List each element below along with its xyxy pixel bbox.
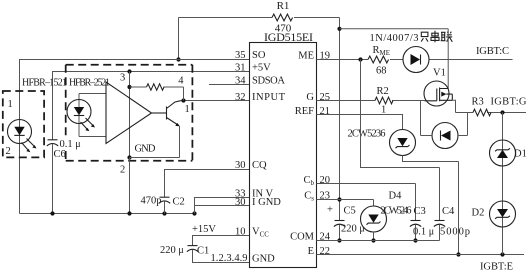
svg-text:1N/4007/3: 1N/4007/3 <box>370 33 419 44</box>
svg-text:+5V: +5V <box>252 62 271 73</box>
wire: CQ line pin30 <box>165 170 250 198</box>
svg-text:R3: R3 <box>472 97 484 108</box>
wire: REF line pin21 to zener <box>317 115 403 130</box>
svg-text:D1: D1 <box>514 149 527 160</box>
svg-text:10: 10 <box>235 226 246 237</box>
svg-text:E: E <box>308 246 314 257</box>
wire: I GND line pin30 <box>195 205 250 207</box>
svg-text:ME: ME <box>298 50 314 61</box>
wire: top R1 feed from SO junction <box>179 18 340 60</box>
wire: ME line to IGBT:C <box>317 59 513 61</box>
svg-text:+15V: +15V <box>192 224 216 235</box>
op-amp triangle (receiver amp) <box>106 82 152 144</box>
pin 34 SDSOA <box>235 75 285 86</box>
pin 21 REF <box>295 106 330 117</box>
internal resistor to pin 4 <box>130 76 185 101</box>
node: +5V / pin3 junction <box>127 69 131 73</box>
svg-text:0.1 μ: 0.1 μ <box>413 227 434 238</box>
svg-text:GND: GND <box>252 253 275 264</box>
wire: COM line pin24 <box>317 240 440 242</box>
svg-text:D4: D4 <box>389 191 403 202</box>
wire: C6 to ground bus <box>52 144 54 213</box>
wire: INPUT line pin32 <box>184 100 250 102</box>
svg-text:IGBT:G: IGBT:G <box>491 97 527 108</box>
svg-text:C6: C6 <box>54 149 66 160</box>
svg-text:R2: R2 <box>377 86 389 97</box>
component box HFBR-2521 (dashed) <box>66 64 193 66</box>
resistor R3 <box>456 97 527 116</box>
svg-text:68: 68 <box>376 66 387 77</box>
wire: IN V line pin33 <box>195 198 250 214</box>
zener D4 2CW5246 <box>361 191 412 233</box>
node: Cs junction on vertical <box>337 197 341 201</box>
svg-text:2: 2 <box>6 146 11 157</box>
component box HFBR-1521 (dashed) <box>3 91 44 157</box>
svg-text:1: 1 <box>381 105 386 116</box>
wire: pin3 vcc vertical <box>129 72 131 158</box>
wire: Cs line pin23 to D4 <box>317 200 374 207</box>
wire: C5 to COM <box>339 225 341 241</box>
pin 23 Cs <box>304 190 330 202</box>
pin 19 ME <box>298 50 330 61</box>
LED D (transmitter) <box>8 120 37 153</box>
svg-text:20: 20 <box>320 175 331 186</box>
svg-text:220 μ: 220 μ <box>341 224 365 235</box>
wire: V1 source to R3 <box>452 100 455 112</box>
svg-text:REF: REF <box>295 106 314 117</box>
svg-text:2: 2 <box>120 165 125 176</box>
svg-text:3: 3 <box>120 73 125 84</box>
svg-text:C2: C2 <box>173 197 185 208</box>
pin 22 E <box>308 246 330 257</box>
capacitor C4 <box>434 206 470 238</box>
svg-text:IGD515EI: IGD515EI <box>264 30 313 44</box>
diode 1N4007 (series sense) <box>403 47 429 73</box>
ground rail inside box <box>130 157 180 159</box>
svg-text:31: 31 <box>235 62 246 73</box>
node: SO junction dot <box>176 57 180 61</box>
pin 25 G <box>306 92 330 103</box>
wire: C1 to GND line <box>193 250 250 263</box>
svg-text:4: 4 <box>178 76 184 87</box>
photodiode (receiver) <box>67 94 106 137</box>
pin 33 IN V <box>235 188 274 199</box>
svg-text:INPUT: INPUT <box>252 92 286 103</box>
diode (antiparallel with V1) <box>421 101 468 149</box>
svg-text:D2: D2 <box>472 208 485 219</box>
node: branch to V1 drain <box>337 27 341 31</box>
svg-text:SO: SO <box>252 50 266 61</box>
svg-text:35: 35 <box>235 50 246 61</box>
svg-text:220 μ: 220 μ <box>160 245 184 256</box>
svg-text:21: 21 <box>320 106 331 117</box>
wire: E line pin22 to IGBT:E <box>317 254 525 256</box>
op-amp U1 IGD515EI box <box>250 43 317 268</box>
pin 24 COM <box>290 231 331 242</box>
svg-text:30: 30 <box>235 197 246 208</box>
svg-text:22: 22 <box>320 246 331 257</box>
svg-text:I GND: I GND <box>252 197 281 208</box>
svg-text:470p: 470p <box>141 196 162 207</box>
svg-text:SDSOA: SDSOA <box>252 75 285 86</box>
pin 35 SO <box>235 50 266 61</box>
svg-text:COM: COM <box>290 231 315 242</box>
svg-text:IGBT:E: IGBT:E <box>480 262 513 273</box>
svg-text:32: 32 <box>235 92 246 103</box>
capacitor C1 <box>160 245 209 257</box>
svg-text:V1: V1 <box>433 68 446 79</box>
capacitor C2 <box>141 196 185 208</box>
wire: ME branch to C4 <box>361 60 440 221</box>
zener D2 <box>472 201 516 227</box>
node: ME junction <box>358 57 362 61</box>
ground bus <box>20 213 195 215</box>
svg-text:5000p: 5000p <box>440 227 470 238</box>
wire: zener to E line <box>403 156 459 255</box>
pin 32 INPUT <box>235 92 286 103</box>
wire: G line pin25 <box>317 100 425 102</box>
wire: +5V line pin31 <box>53 72 250 140</box>
wire: Cb line pin20 to C3 <box>317 184 416 221</box>
svg-text:C3: C3 <box>414 206 426 217</box>
label 1N/4007 3 in series <box>370 31 453 44</box>
svg-text:C5: C5 <box>344 206 356 217</box>
transistor (output stage) <box>152 101 190 158</box>
node: INPUT/pin1 junction <box>181 98 185 102</box>
resistor R1 <box>272 0 293 35</box>
svg-text:C1: C1 <box>197 246 209 257</box>
wire: SDSOA stub pin34 <box>209 84 250 86</box>
resistor RME 68 <box>368 45 390 77</box>
zener 2CW5236 <box>348 129 416 156</box>
pin 30 CQ <box>235 160 267 171</box>
svg-text:+: + <box>327 205 333 216</box>
wire: Vcc line pin10 <box>193 236 250 246</box>
svg-text:HFBR–1521: HFBR–1521 <box>22 78 67 89</box>
svg-text:HFBR–2521: HFBR–2521 <box>69 78 110 89</box>
capacitor C3 <box>410 206 434 238</box>
resistor R2 <box>375 86 393 116</box>
svg-text:G: G <box>306 92 314 103</box>
svg-text:2CW5236: 2CW5236 <box>348 129 386 140</box>
svg-text:C4: C4 <box>442 206 455 217</box>
wire: branch to V1 drain <box>340 29 449 89</box>
zener D1 <box>490 113 527 255</box>
pin 10 Vcc <box>235 226 269 238</box>
svg-text:R1: R1 <box>277 0 290 12</box>
svg-text:25: 25 <box>320 92 331 103</box>
wire: R1 to REF-net vertical <box>339 18 341 221</box>
svg-text:1: 1 <box>185 104 190 115</box>
capacitor C6 <box>47 139 81 160</box>
svg-text:2CW5246: 2CW5246 <box>381 206 412 217</box>
svg-text:30: 30 <box>235 160 246 171</box>
wire: SO line pin35 to left edge <box>20 60 250 214</box>
svg-text:1.2.3.4.9: 1.2.3.4.9 <box>211 253 248 264</box>
wire: pin2 to bus <box>129 158 131 214</box>
svg-text:34: 34 <box>235 75 246 86</box>
svg-text:IGBT:C: IGBT:C <box>476 46 509 57</box>
svg-text:GND: GND <box>135 144 156 155</box>
pin 20 Cb <box>303 175 330 187</box>
svg-text:1: 1 <box>8 99 13 110</box>
transistor V1 (MOSFET) <box>424 68 452 107</box>
pin 30 I GND <box>235 197 281 208</box>
capacitor C5 (electrolytic) <box>327 205 365 235</box>
pin 31 +5V <box>235 62 271 73</box>
svg-text:CQ: CQ <box>252 160 267 171</box>
